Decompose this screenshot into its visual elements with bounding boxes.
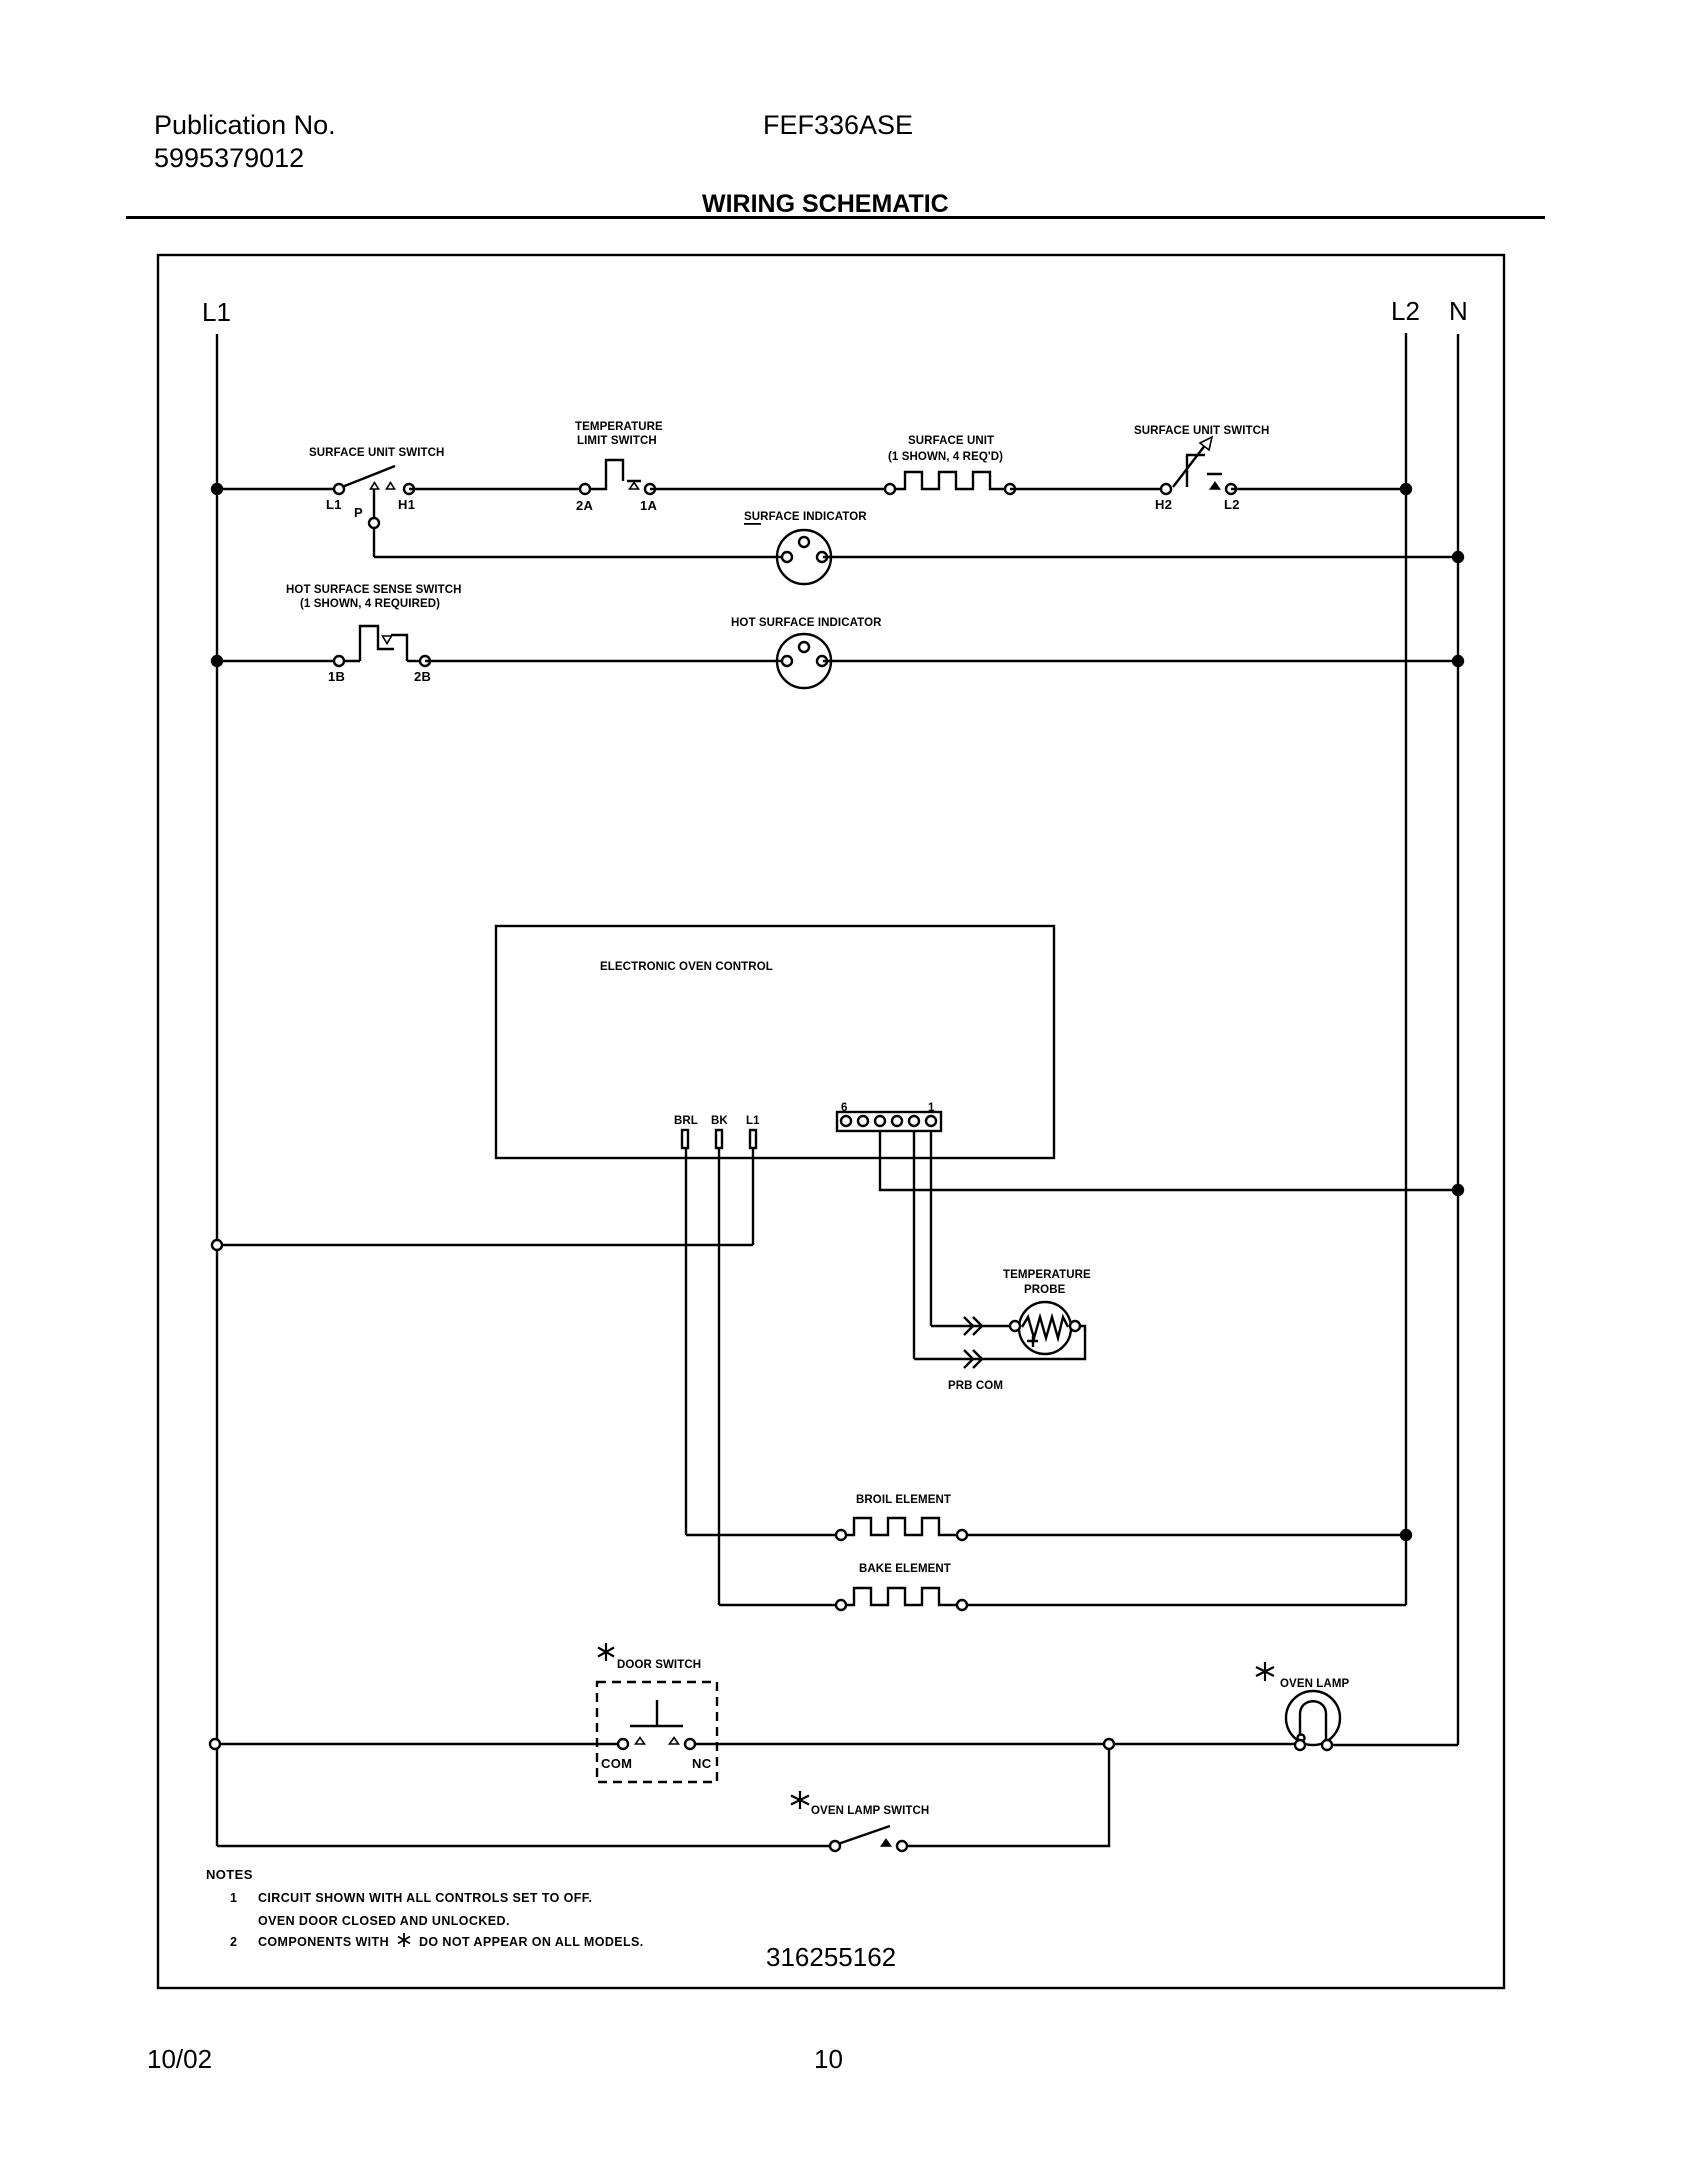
connector chevrons lower [964,1350,982,1368]
label ELECTRONIC OVEN CONTROL [600,961,773,973]
svg-text:1: 1 [230,1891,237,1905]
wire 2B to hot surface indicator [425,660,786,662]
label H1 terminal [398,497,415,512]
svg-text:H2: H2 [1155,497,1172,512]
label 1A terminal [640,498,658,513]
terminal lamp switch left [830,1841,840,1851]
label pin 6 [841,1102,848,1114]
wire broil row left [686,1534,841,1536]
wire row1 L1 to surface unit switch [217,488,339,490]
node L1 label [202,297,231,327]
svg-text:P: P [354,505,363,520]
label (1 SHOWN, 4 REQ'D) [888,451,1003,463]
label L2 terminal [1224,497,1240,512]
pin BK [716,1130,722,1148]
svg-text:316255162: 316255162 [766,1942,896,1972]
contact triangle L2 [1211,483,1220,490]
wire lamp switch to junction [906,1748,1109,1846]
junction hot surface indicator row on N bus [1453,656,1463,666]
wire surface indicator to N bus [823,556,1458,558]
svg-text:SURFACE UNIT: SURFACE UNIT [908,435,994,447]
junction row1 on L1 bus [212,484,222,494]
wire connector pin3 to N bus [880,1131,1458,1190]
asterisk in note 2 [398,1933,410,1947]
wire phi to EOC L1 pin [222,1244,753,1246]
junction lamp switch return [1104,1739,1114,1749]
terminal COM [618,1739,628,1749]
terminal 1A [645,484,655,494]
wire lamp switch row [217,1845,831,1847]
label SURFACE UNIT [908,435,994,447]
svg-text:1B: 1B [328,669,345,684]
asterisk oven lamp switch [791,1791,809,1809]
label L1 terminal [326,497,342,512]
svg-text:DOOR SWITCH: DOOR SWITCH [617,1659,701,1671]
terminal L1 of surface unit switch [334,484,344,494]
wire row2 L1 to hot surface sense switch [217,660,339,662]
label 2A terminal [576,498,594,513]
text title WIRING SCHEMATIC [702,190,949,218]
label NOTES [206,1867,253,1882]
hot surface sense switch contact [391,635,425,661]
svg-text:Publication No.: Publication No. [154,110,336,140]
svg-text:10: 10 [814,2044,843,2074]
svg-text:2: 2 [230,1935,237,1949]
label BK pin [711,1115,728,1127]
svg-text:OVEN LAMP: OVEN LAMP [1280,1678,1349,1690]
terminal oven lamp right [1322,1740,1332,1750]
svg-text:BRL: BRL [674,1115,698,1127]
wire H1 to temperature limit switch [409,488,585,490]
svg-text:NC: NC [692,1756,712,1771]
label NC terminal [692,1756,712,1771]
contact triangle NC [670,1738,679,1745]
contact triangle 1A [630,483,639,490]
svg-text:ELECTRONIC OVEN CONTROL: ELECTRONIC OVEN CONTROL [600,961,773,973]
label SURFACE UNIT SWITCH right [1134,425,1269,437]
text part number 316255162 [766,1942,896,1972]
terminal broil right [957,1530,967,1540]
wire L2 terminal to L2 bus [1231,488,1406,490]
svg-text:1A: 1A [640,498,658,513]
bracket of right switch [1187,455,1222,487]
wire hot surface indicator to N bus [823,660,1458,662]
wire 1A to surface unit [650,488,890,490]
contact triangle lamp switch [882,1840,891,1847]
connector chevrons upper [964,1317,982,1335]
header rule [126,216,1545,219]
terminal 1B [334,656,344,666]
svg-text:SURFACE UNIT SWITCH: SURFACE UNIT SWITCH [1134,425,1269,437]
switch oven lamp switch blade [838,1826,890,1844]
note 2 [230,1935,644,1949]
svg-text:5995379012: 5995379012 [154,143,304,173]
junction row2 on L1 bus [212,656,222,666]
contact triangle H1 [387,483,395,490]
terminal L2 [1226,484,1236,494]
label P terminal [354,505,363,520]
resistor bake element [845,1588,958,1605]
svg-text:2A: 2A [576,498,594,513]
wire door switch row left [218,1743,619,1745]
asterisk door switch [598,1643,614,1661]
svg-text:N: N [1449,296,1468,326]
svg-text:PRB COM: PRB COM [948,1380,1003,1392]
label BRL pin [674,1115,698,1127]
wire probe lower row PRB COM [914,1326,1085,1359]
terminal probe left [1010,1321,1020,1331]
switch surface unit switch right blade [1173,444,1206,487]
svg-text:CIRCUIT SHOWN WITH ALL CONTROL: CIRCUIT SHOWN WITH ALL CONTROLS SET TO O… [258,1891,592,1905]
switch surface unit switch left blade [342,466,395,487]
wire surface indicator row [374,556,786,558]
asterisk oven lamp [1256,1662,1274,1681]
svg-text:L1: L1 [746,1115,760,1127]
terminal NC [685,1739,695,1749]
svg-text:NOTES: NOTES [206,1867,253,1882]
label PROBE [1024,1284,1066,1296]
label HOT SURFACE SENSE SWITCH [286,584,462,596]
contact triangle P [371,483,379,490]
svg-text:FEF336ASE: FEF336ASE [763,110,913,140]
terminal H2 [1161,484,1171,494]
terminal phi on L1 bus [212,1240,222,1250]
resistor broil element [845,1518,958,1535]
contact triangle COM [636,1738,645,1745]
terminal door row on L1 bus [210,1739,220,1749]
terminal surface unit right [1005,484,1015,494]
label COM terminal [601,1756,632,1771]
label TEMPERATURE probe [1003,1269,1091,1281]
wire bake row left [719,1604,841,1606]
svg-text:H1: H1 [398,497,415,512]
label OVEN LAMP SWITCH [811,1805,929,1817]
text footer date 10/02 [147,2044,212,2074]
arrowhead of right switch blade [1200,437,1212,450]
svg-text:SURFACE UNIT SWITCH: SURFACE UNIT SWITCH [309,447,444,459]
terminal bake left [836,1600,846,1610]
wire L1 bus vertical [216,334,218,1846]
svg-text:WIRING SCHEMATIC: WIRING SCHEMATIC [702,190,949,218]
note 1 line 2 [258,1914,510,1928]
wire oven lamp to N bus [1331,1744,1458,1746]
svg-text:BK: BK [711,1115,728,1127]
label TEMPERATURE [575,421,663,433]
wire BRL pin down to broil row [685,1148,687,1535]
terminal broil left [836,1530,846,1540]
label PRB COM [948,1380,1003,1392]
label 2B terminal [414,669,431,684]
label BROIL ELEMENT [856,1494,951,1506]
label DOOR SWITCH [617,1659,701,1671]
wire connector pin5 down [913,1131,915,1359]
svg-text:BROIL ELEMENT: BROIL ELEMENT [856,1494,951,1506]
lamp hot surface indicator [777,634,831,688]
pin BRL [682,1130,688,1148]
svg-text:10/02: 10/02 [147,2044,212,2074]
svg-text:HOT SURFACE INDICATOR: HOT SURFACE INDICATOR [731,617,882,629]
svg-text:COM: COM [601,1756,632,1771]
terminal oven lamp left [1295,1740,1305,1750]
wire broil row to L2 bus [966,1534,1406,1536]
electronic oven control box [496,926,1054,1158]
svg-text:L1: L1 [202,297,231,327]
label (1 SHOWN, 4 REQUIRED) [300,598,440,610]
temperature limit switch body [589,460,641,489]
svg-text:L2: L2 [1224,497,1240,512]
terminal H1 of surface unit switch [404,484,414,494]
text model FEF336ASE [763,110,913,140]
terminal 2A [580,484,590,494]
junction broil row on L2 bus [1401,1530,1411,1540]
svg-text:(1 SHOWN, 4 REQ'D): (1 SHOWN, 4 REQ'D) [888,451,1003,463]
text publication number 5995379012 [154,143,304,173]
svg-text:6: 6 [841,1102,848,1114]
wire surface unit to H2 [1010,488,1166,490]
svg-text:LIMIT SWITCH: LIMIT SWITCH [577,435,657,447]
text footer page 10 [814,2044,843,2074]
note 1 line 1 [230,1891,592,1905]
wire bake row to L2 bus [966,1604,1406,1606]
svg-text:BAKE ELEMENT: BAKE ELEMENT [859,1563,951,1575]
wire L1 pin down to phi row [752,1148,754,1245]
label SURFACE INDICATOR [744,511,867,525]
label H2 terminal [1155,497,1172,512]
terminal probe right [1070,1321,1080,1331]
wire N bus vertical [1457,334,1459,1745]
border frame [158,255,1504,1988]
svg-text:COMPONENTS WITH: COMPONENTS WITH [258,1935,389,1949]
svg-text:TEMPERATURE: TEMPERATURE [1003,1269,1091,1281]
label BAKE ELEMENT [859,1563,951,1575]
connector block of EOC [837,1112,941,1131]
terminal bake right [957,1600,967,1610]
terminal P of surface unit switch [369,518,379,528]
wire door switch to lamp [694,1743,1296,1745]
node L2 label [1391,296,1420,326]
hot surface sense switch body [343,626,394,661]
wire BK pin down to bake row [718,1148,720,1605]
svg-text:2B: 2B [414,669,431,684]
terminal surface unit left [885,484,895,494]
lamp surface indicator [777,530,831,584]
text Publication No. [154,110,336,140]
wire P drop to indicator row [373,486,375,557]
lamp oven lamp bulb [1286,1691,1340,1745]
svg-text:OVEN DOOR CLOSED AND UNLOCKED.: OVEN DOOR CLOSED AND UNLOCKED. [258,1914,510,1928]
label HOT SURFACE INDICATOR [731,617,882,629]
terminal 2B [420,656,430,666]
svg-text:OVEN LAMP SWITCH: OVEN LAMP SWITCH [811,1805,929,1817]
svg-text:PROBE: PROBE [1024,1284,1066,1296]
junction pin3 wire on N bus [1453,1185,1463,1195]
label SURFACE UNIT SWITCH left [309,447,444,459]
svg-text:1: 1 [928,1102,935,1114]
door switch plunger [630,1700,683,1726]
label OVEN LAMP [1280,1678,1349,1690]
wire connector pin6 down [930,1131,932,1326]
temperature probe body [1019,1302,1071,1354]
node N label [1449,296,1468,326]
svg-text:(1 SHOWN, 4 REQUIRED): (1 SHOWN, 4 REQUIRED) [300,598,440,610]
svg-text:TEMPERATURE: TEMPERATURE [575,421,663,433]
door switch dashed box [597,1682,717,1782]
svg-text:DO NOT APPEAR ON ALL MODELS.: DO NOT APPEAR ON ALL MODELS. [419,1935,644,1949]
pin L1 [750,1130,756,1148]
svg-text:SURFACE INDICATOR: SURFACE INDICATOR [744,511,867,523]
svg-text:HOT SURFACE SENSE SWITCH: HOT SURFACE SENSE SWITCH [286,584,462,596]
junction row1 on L2 bus [1401,484,1411,494]
terminal lamp switch right [897,1841,907,1851]
label 1B terminal [328,669,345,684]
contact triangle of sense switch [383,636,392,644]
wire probe upper row [931,1325,1013,1327]
svg-text:L1: L1 [326,497,342,512]
label L1 pin [746,1115,760,1127]
resistor surface unit element [894,472,1006,489]
wire L2 bus vertical [1405,333,1407,1605]
junction surface indicator row on N bus [1453,552,1463,562]
label LIMIT SWITCH [577,435,657,447]
label pin 1 [928,1102,935,1114]
svg-text:L2: L2 [1391,296,1420,326]
